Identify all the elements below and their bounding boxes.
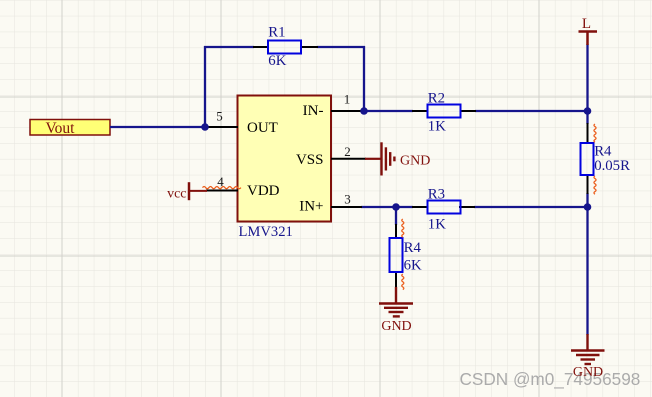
svg-text:R2: R2	[428, 91, 445, 107]
op-amp U1 LMV321	[238, 96, 332, 241]
wire feedback vertical left	[204, 46, 206, 127]
svg-text:5: 5	[216, 109, 223, 124]
wire R2 to right rail	[475, 110, 588, 112]
svg-text:3: 3	[344, 192, 351, 207]
net label Vout	[30, 120, 110, 138]
ground GND bottom right	[571, 334, 605, 380]
wire pin3 to junction	[361, 206, 397, 208]
svg-text:1K: 1K	[428, 217, 446, 233]
wire feedback vertical right	[363, 46, 365, 111]
wire pin1 to R2	[362, 110, 413, 112]
junction node at IN+ divider	[392, 203, 400, 211]
svg-text:VSS: VSS	[296, 152, 324, 168]
wire R1 left	[204, 46, 254, 48]
svg-text:6K: 6K	[268, 53, 286, 69]
svg-text:LMV321: LMV321	[239, 224, 293, 240]
ground GND below R4 6K	[379, 287, 413, 334]
pin 4 VDD	[206, 174, 280, 199]
pin 3 IN+	[299, 192, 362, 215]
svg-text:R1: R1	[268, 25, 285, 41]
wire R1 right	[317, 46, 365, 48]
svg-text:Vout: Vout	[45, 120, 75, 137]
ground GND at VSS pin 2	[365, 142, 430, 175]
power port vcc	[167, 182, 207, 201]
svg-text:IN-: IN-	[303, 103, 324, 119]
resistor R4 0.05R shunt	[581, 123, 631, 194]
wire junction to R3	[395, 206, 413, 208]
junction node right rail bottom	[584, 203, 592, 211]
svg-text:GND: GND	[400, 153, 430, 168]
svg-text:2: 2	[344, 144, 351, 159]
wire right rail down to ground	[586, 206, 588, 335]
resistor R4 6K	[390, 224, 422, 288]
svg-text:VDD: VDD	[247, 183, 280, 199]
power port L	[579, 16, 598, 45]
svg-text:GND: GND	[573, 365, 603, 380]
pin 1 IN-	[303, 92, 362, 120]
wire R4 sense to lower rail	[586, 193, 588, 208]
wire L rail down	[586, 44, 588, 124]
svg-text:1K: 1K	[428, 119, 446, 135]
wire R3 to right rail	[474, 206, 589, 208]
svg-text:vcc: vcc	[167, 187, 186, 202]
svg-text:L: L	[582, 16, 591, 32]
pin 5 OUT	[207, 109, 278, 137]
svg-text:0.05R: 0.05R	[594, 158, 630, 174]
junction node right rail top	[584, 107, 592, 115]
error marker above R4 0.05R	[594, 124, 596, 142]
error marker below R4 0.05R	[594, 176, 596, 194]
svg-text:CSDN @m0_74956598: CSDN @m0_74956598	[460, 369, 641, 389]
svg-text:GND: GND	[381, 319, 411, 334]
resistor R1	[253, 25, 318, 70]
resistor R3	[412, 187, 475, 233]
svg-text:R3: R3	[428, 187, 445, 203]
svg-text:IN+: IN+	[299, 199, 323, 215]
error marker above R4 6K	[402, 219, 404, 237]
pin 2 VSS	[296, 144, 366, 168]
resistor R2	[412, 91, 476, 135]
svg-text:6K: 6K	[404, 258, 422, 274]
svg-text:1: 1	[344, 92, 351, 107]
svg-text:R4: R4	[404, 240, 422, 256]
error marker at pin 4	[203, 187, 241, 189]
error marker below R4 6K	[402, 274, 404, 290]
wire junction down to R4	[395, 207, 397, 225]
svg-text:OUT: OUT	[247, 120, 278, 136]
wire Vout to OUT pin	[110, 126, 206, 128]
junction node at OUT pin	[201, 123, 209, 131]
junction node at IN- pin	[360, 107, 368, 115]
